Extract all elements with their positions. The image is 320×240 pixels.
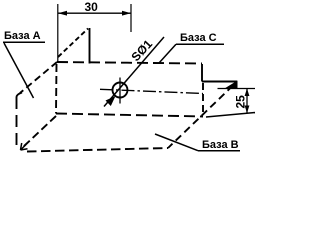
dim30 arrow left (58, 11, 67, 16)
edge step bottom solid (y=81.5) (202, 81, 237, 83)
dim30 arrow right (122, 11, 131, 16)
label Baza A underline (3, 41, 45, 43)
svg-text:25: 25 (234, 95, 248, 109)
dim25 extension top (218, 88, 256, 90)
hole circle (113, 83, 128, 98)
dim30 line (58, 12, 131, 14)
svg-text:30: 30 (85, 0, 99, 14)
label Baza B underline (198, 150, 240, 152)
edge depth top-left diagonal (20, 62, 57, 93)
dim30 extension line right (130, 4, 132, 32)
dim25 arrow top (245, 89, 250, 97)
leader SO1 arrowhead (106, 96, 116, 106)
dim25 arrow bottom (245, 106, 250, 114)
edge back-left vertical (dashed, x=56.5) (55, 64, 58, 114)
svg-text:База С: База С (180, 32, 217, 44)
label Baza C leader (159, 44, 176, 63)
edge depth right solid stub (thick) (225, 81, 238, 89)
centerline vertical through hole (119, 78, 121, 104)
edge front step vertical (dashed x=203) (202, 83, 204, 116)
dim25 extension bottom (206, 113, 255, 118)
svg-text:База В: База В (202, 139, 239, 151)
edge depth right diagonal long (dashed) (168, 86, 233, 149)
edge top-back (dashed, y=62) (57, 62, 202, 64)
fin diagonal (dashed) (58, 29, 88, 58)
centerline horizontal through hole (100, 89, 203, 93)
edge bottom-front (dashed) (27, 148, 168, 152)
arrowhead at bottom-left corner (21, 143, 28, 150)
fin vertical solid (89, 28, 91, 64)
dim25 line (246, 89, 248, 114)
leader SO1 line (104, 37, 164, 107)
dim30 extension line left (57, 4, 59, 63)
label Baza C underline (176, 43, 224, 45)
label Baza B leader (155, 134, 198, 151)
svg-text:База А: База А (4, 30, 41, 42)
edge bottom-back (dashed, y=114) (56, 114, 203, 117)
edge step right vertical solid (201, 64, 203, 82)
edge front-left vertical with corner (17, 93, 23, 110)
label Baza A leader (4, 43, 34, 98)
edge depth bottom-left diagonal (23, 116, 56, 147)
